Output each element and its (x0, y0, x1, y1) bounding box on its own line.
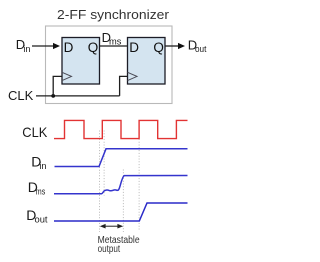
svg-text:ms: ms (109, 36, 122, 46)
flip-flop U2 body (128, 38, 166, 85)
svg-text:Q: Q (153, 40, 164, 55)
arrowhead into U1 D pin (53, 43, 60, 49)
svg-text:2-FF synchronizer: 2-FF synchronizer (57, 7, 170, 22)
svg-text:in: in (39, 161, 46, 171)
waveform Din (blue) (55, 149, 188, 167)
svg-text:out: out (195, 44, 207, 54)
wire CLK horizontal (36, 95, 120, 97)
dotted marker line A (aperture start, x=99.6) (99, 131, 101, 233)
dotted marker line D (next clock edge, x=139.1) (138, 131, 140, 230)
waveform Dms (blue, metastable wiggle then resolve high) (54, 176, 188, 194)
svg-text:CLK: CLK (22, 124, 48, 140)
wire U2.Q output (165, 45, 179, 47)
svg-text:output: output (98, 244, 121, 255)
metastable window double arrow (105, 225, 119, 227)
dotted marker line C (resolution, x=123.3) (122, 170, 124, 233)
waveform CLK (red square wave) (54, 120, 188, 138)
wire CLK riser to U2 clock pin (120, 76, 128, 96)
svg-text:in: in (23, 44, 30, 54)
clock triangle U2 (128, 72, 138, 80)
dotted marker line B (clock edge, x=104.1) (103, 131, 105, 196)
junction dot on CLK wire (51, 94, 55, 98)
svg-text:D: D (64, 40, 74, 55)
waveform Dout (blue) (54, 203, 188, 221)
wire node Dms between U1.Q and U2.D (100, 45, 128, 47)
svg-text:Q: Q (88, 40, 99, 55)
clock triangle U1 (62, 72, 72, 80)
svg-text:D: D (129, 40, 139, 55)
wire Din input (32, 45, 54, 47)
svg-text:out: out (35, 215, 49, 225)
flip-flop U1 body (62, 38, 100, 85)
svg-text:CLK: CLK (8, 88, 34, 103)
outer enclosure box (46, 26, 173, 104)
svg-text:ms: ms (36, 187, 46, 197)
arrowhead to Dout (178, 43, 185, 49)
wire CLK riser to U1 clock pin (53, 76, 62, 96)
